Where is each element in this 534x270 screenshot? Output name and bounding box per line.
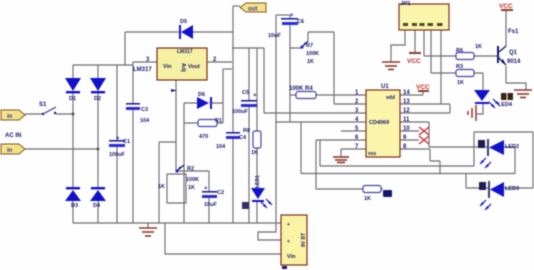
switch S1: [39, 102, 56, 115]
svg-text:Q1: Q1: [509, 50, 518, 56]
wire D1 leg x73: [72, 65, 74, 223]
connector in2: [1, 144, 25, 154]
wire IC pin12 jog: [400, 104, 450, 113]
wire C2 leg x209: [208, 171, 210, 223]
no-connect X pin10: [419, 127, 429, 135]
capacitor C5: [232, 90, 257, 115]
potentiometer R7: [300, 41, 319, 65]
resistor R6: [456, 44, 482, 60]
wire R3 row to LED4: [431, 73, 483, 90]
wire IC pin5 stub: [341, 130, 366, 132]
svg-text:1K: 1K: [307, 59, 314, 65]
wire y166 row: [320, 140, 474, 166]
wire D5 riser x125: [124, 32, 126, 65]
svg-text:LED4: LED4: [498, 102, 513, 108]
diode D6: [197, 92, 212, 109]
svg-text:100uF: 100uF: [109, 152, 126, 158]
svg-text:C3: C3: [141, 107, 148, 113]
ground JP1: [382, 62, 400, 70]
svg-text:12: 12: [403, 108, 410, 114]
wire switch to bridge: [25, 113, 73, 115]
svg-text:D1: D1: [69, 96, 76, 102]
svg-text:11: 11: [403, 117, 410, 123]
svg-text:9014: 9014: [507, 59, 521, 65]
capacitor C3: [126, 103, 150, 124]
svg-text:D4: D4: [93, 203, 101, 209]
svg-text:JP1: JP1: [400, 1, 411, 7]
wire IC pin7 stub: [341, 149, 366, 157]
svg-text:100K: 100K: [306, 51, 319, 57]
wire IC pin14 to VCC: [400, 92, 423, 95]
wire IC pin10 stub: [400, 130, 419, 132]
svg-text:LED1: LED1: [255, 175, 261, 188]
svg-text:1K: 1K: [158, 184, 165, 190]
capacitor C1: [109, 136, 130, 158]
svg-text:100K: 100K: [186, 177, 199, 183]
wire IC pin2 row: [334, 103, 366, 105]
svg-text:vdd: vdd: [386, 95, 395, 101]
wire pot to C2: [177, 170, 209, 172]
svg-text:in: in: [7, 114, 13, 120]
wire C5 leg x249: [248, 48, 250, 223]
wire lower bus step: [165, 223, 281, 254]
wire IC pin13 to JP1: [400, 30, 441, 104]
wire JP1 pin1 to ground: [391, 30, 405, 62]
svg-text:C5: C5: [242, 90, 249, 96]
svg-text:D5: D5: [180, 19, 187, 25]
power VCC JP1: [407, 52, 421, 65]
svg-text:104: 104: [140, 118, 150, 124]
wire x223 output drop: [222, 69, 224, 123]
transistor Q1: [497, 46, 521, 65]
svg-text:R3: R3: [456, 64, 463, 70]
svg-text:LED2: LED2: [505, 144, 519, 150]
capacitor C2: [202, 186, 224, 208]
wire out flag link: [233, 5, 240, 7]
diode D2: [90, 78, 106, 102]
svg-text:Fs1: Fs1: [508, 29, 519, 35]
svg-text:VCC: VCC: [407, 58, 421, 65]
junction node AC2: [97, 148, 100, 151]
wire IC pin11 to LED2: [400, 122, 487, 147]
wire ground rail x276 with jog: [258, 15, 281, 240]
svg-text:+: +: [253, 93, 257, 99]
wire x184 rail: [183, 103, 185, 223]
wire LM317 adj x176: [175, 80, 177, 170]
svg-text:AC IN: AC IN: [5, 133, 21, 139]
svg-text:VCC: VCC: [416, 84, 430, 91]
svg-text:LM317: LM317: [133, 67, 152, 73]
wire C3 leg x133: [132, 62, 134, 223]
wire LED3 anode loop: [474, 132, 533, 188]
svg-text:LM317: LM317: [177, 49, 193, 55]
IC U1 right pin numbers: [403, 90, 410, 150]
svg-text:D3: D3: [71, 203, 78, 209]
wire x159 rail: [159, 142, 176, 223]
resistor R8: [243, 128, 261, 156]
wire LM317 pin3: [133, 61, 157, 63]
IC U1 CD4069: [366, 84, 400, 157]
svg-text:R1: R1: [215, 118, 222, 124]
wire IC pin9 stub: [400, 139, 419, 141]
diode D1: [65, 78, 81, 102]
LED LED3: [479, 181, 519, 210]
svg-text:C1: C1: [123, 139, 130, 145]
svg-text:10uF: 10uF: [268, 33, 281, 39]
header JP1: [399, 1, 449, 30]
svg-text:Vout: Vout: [188, 64, 200, 70]
regulator U2 LM317: [133, 48, 217, 80]
junction node AC1: [72, 113, 75, 116]
svg-text:+: +: [287, 239, 290, 245]
LED LED2: [478, 139, 519, 168]
no-connect X pin9: [419, 136, 429, 144]
wire pot R7 link: [290, 32, 308, 48]
svg-text:470: 470: [199, 134, 208, 140]
wire R4 row and IC pin1: [290, 94, 366, 96]
wire LED4 cathode: [477, 102, 483, 114]
svg-text:Vin: Vin: [163, 64, 172, 70]
resistor R3: [456, 64, 474, 86]
svg-text:1K: 1K: [457, 80, 464, 86]
wire R9 row: [316, 188, 383, 190]
svg-text:VCC: VCC: [499, 3, 513, 10]
wire x316 drop: [315, 140, 317, 189]
svg-text:D6: D6: [198, 92, 205, 98]
wire top positive rail y65: [73, 64, 133, 66]
resistor R9: [363, 186, 392, 203]
svg-text:14: 14: [403, 90, 410, 96]
capacitor C4: [216, 132, 247, 150]
svg-text:Adj: Adj: [180, 63, 186, 72]
ground main: [139, 228, 157, 236]
svg-text:D2: D2: [94, 96, 101, 102]
wire x264 drop: [263, 48, 265, 113]
wire LED3 cathode link: [466, 174, 488, 189]
power VCC IC: [416, 84, 430, 92]
svg-text:100uF: 100uF: [232, 109, 249, 115]
svg-text:R6: R6: [456, 48, 463, 54]
module U3 power: [281, 215, 307, 269]
svg-text:Vin: Vin: [287, 254, 296, 260]
potentiometer R2: [158, 165, 199, 191]
diode D5: [179, 19, 193, 39]
wire ground bus y223: [73, 222, 281, 224]
svg-text:vss: vss: [368, 151, 377, 157]
connector out: [240, 3, 266, 13]
svg-text:1K: 1K: [188, 185, 195, 191]
capacitor C6: [268, 13, 304, 39]
connector in1: [1, 110, 25, 120]
ground IC pin7: [333, 157, 349, 163]
svg-text:1K: 1K: [475, 44, 482, 50]
wire LM317 pin2: [207, 61, 232, 63]
svg-text:C4: C4: [239, 135, 247, 141]
wire D2 leg x98: [97, 65, 99, 223]
ground Q1 emitter: [514, 90, 532, 98]
diode D4: [90, 187, 106, 209]
diode D3: [65, 187, 81, 209]
wire R1 row: [184, 122, 223, 124]
wire IC pin3 row: [264, 112, 366, 114]
power VCC top right: [499, 3, 513, 11]
wire ground stem: [147, 223, 149, 228]
wire x301 drop: [300, 122, 302, 174]
svg-text:C6: C6: [297, 19, 304, 25]
svg-text:1K: 1K: [364, 196, 371, 202]
wire out node x233: [232, 6, 234, 223]
svg-text:C2: C2: [217, 190, 224, 196]
svg-text:R7: R7: [306, 43, 313, 49]
wire C6 top link: [276, 14, 290, 16]
IC U1 left pin numbers: [355, 90, 359, 150]
LED LED1: [242, 175, 272, 209]
wire Q1 collector riser: [505, 10, 507, 46]
wire R2 pot loop: [167, 174, 186, 203]
svg-text:13: 13: [403, 99, 410, 105]
svg-text:in: in: [7, 148, 13, 154]
svg-text:100K R4: 100K R4: [289, 86, 313, 92]
wire C6 R7 R4 leg x290: [289, 15, 291, 122]
resistor R1: [198, 118, 222, 140]
wire x334 drop: [333, 32, 335, 104]
resistor R4: [289, 86, 316, 99]
wire IC pin8 staircase: [400, 149, 440, 174]
wire IC pin4 row: [276, 121, 366, 123]
wire y173 rail: [301, 173, 515, 175]
svg-text:10: 10: [403, 126, 410, 132]
wire IC pin6 row: [316, 139, 366, 141]
wire R8 LED1 leg x257: [256, 48, 258, 223]
wire conn2 to bridge: [25, 148, 98, 150]
svg-text:104: 104: [216, 144, 226, 150]
svg-text:R2: R2: [187, 166, 194, 172]
wire R7 top row: [308, 31, 334, 33]
svg-text:LED3: LED3: [505, 186, 519, 192]
svg-text:+: +: [287, 222, 290, 228]
wire y69 link: [223, 68, 232, 70]
wire C1 leg x117: [116, 65, 118, 223]
wire JP1 pin2 to VCC: [414, 30, 416, 52]
svg-text:U1: U1: [381, 84, 389, 90]
wire R6 row: [424, 55, 498, 57]
svg-text:9V BT: 9V BT: [301, 233, 307, 247]
wire JP1 pin4 drop: [430, 30, 432, 73]
svg-text:10uF: 10uF: [204, 202, 217, 208]
svg-text:CD4069: CD4069: [369, 120, 389, 126]
wire out branch y48: [232, 47, 264, 49]
wire D6 row: [184, 102, 223, 104]
wire LED2 anode drop: [504, 147, 515, 174]
svg-text:out: out: [248, 7, 257, 13]
LM317 adj pin mark: [171, 89, 177, 92]
svg-text:1K: 1K: [251, 150, 258, 156]
wire Q1 emitter to ground: [506, 66, 526, 90]
wire JP1 pin3 drop: [423, 30, 425, 56]
svg-text:R8: R8: [243, 128, 250, 134]
svg-text:S1: S1: [39, 102, 47, 108]
ground LED4 sideways: [468, 105, 476, 121]
wire D5 row y32: [125, 31, 233, 33]
LED LED4: [474, 90, 513, 108]
